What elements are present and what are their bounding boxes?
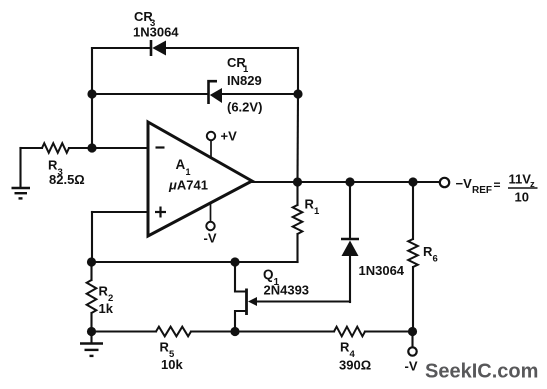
node dot D (output/R1) xyxy=(293,177,302,186)
wire plus input xyxy=(92,211,148,213)
svg-text:REF: REF xyxy=(472,185,492,196)
svg-text:82.5Ω: 82.5Ω xyxy=(49,172,85,187)
svg-text:1: 1 xyxy=(186,167,191,177)
svg-text:390Ω: 390Ω xyxy=(339,358,371,373)
wire left vertical feedback bus xyxy=(91,48,93,148)
resistor R2 zigzag xyxy=(87,280,97,313)
svg-text:SeekIC.com: SeekIC.com xyxy=(425,361,538,383)
wire bottom rail xyxy=(92,330,157,332)
transistor Q1 drain lead xyxy=(235,262,246,292)
wire Q1 gate to diode xyxy=(256,300,350,302)
op-amp minus input sign xyxy=(156,146,165,148)
diode 1N3064 cathode bar xyxy=(341,238,359,241)
node dot G (plus rail/R2) xyxy=(87,257,96,266)
node dot E (output/diode) xyxy=(345,177,354,186)
svg-text:μA741: μA741 xyxy=(168,178,208,193)
svg-text:R: R xyxy=(99,284,109,299)
svg-text:R: R xyxy=(305,197,315,212)
node dot A (feedback/CR1 left) xyxy=(87,89,96,98)
svg-text:1: 1 xyxy=(314,206,320,217)
svg-text:1k: 1k xyxy=(99,301,114,316)
svg-text:-V: -V xyxy=(405,359,418,374)
svg-text:11V: 11V xyxy=(509,172,532,187)
resistor R6 zigzag xyxy=(408,239,418,267)
transistor Q1 channel bar xyxy=(245,289,248,316)
svg-text:2N4393: 2N4393 xyxy=(264,283,310,298)
resistor R1 zigzag xyxy=(293,205,303,234)
svg-text:+V: +V xyxy=(221,129,238,144)
op-amp U1 A1 triangle xyxy=(148,122,252,236)
node dot I (R2 bottom) xyxy=(87,327,96,336)
ground left stem xyxy=(19,148,21,188)
resistor R3 zigzag xyxy=(42,143,69,153)
svg-text:(6.2V): (6.2V) xyxy=(227,100,262,115)
ground bottom stem xyxy=(90,332,92,344)
zener CR1 arrow xyxy=(210,88,222,103)
svg-text:1N3064: 1N3064 xyxy=(359,263,405,278)
svg-text:Q: Q xyxy=(263,267,274,282)
terminal output circle xyxy=(440,178,449,187)
node dot K (R4/R6/-V) xyxy=(408,327,417,336)
diode 1N3064 arrow xyxy=(342,241,359,257)
svg-text:-V: -V xyxy=(204,231,217,246)
resistor R5 zigzag xyxy=(156,327,191,337)
svg-text:R: R xyxy=(48,158,58,173)
svg-text:−V: −V xyxy=(456,176,473,191)
wire top feedback (CR3 branch) xyxy=(92,47,150,49)
transistor Q1 source lead xyxy=(235,311,246,332)
wire diode 1N3064 vertical xyxy=(349,182,351,239)
ground left symbol xyxy=(12,188,31,198)
op-amp -V pin xyxy=(210,203,212,222)
wire R6 vertical xyxy=(412,182,414,239)
resistor R1 vertical wire xyxy=(296,182,298,205)
wire middle horizontal (inverting bias rail) xyxy=(92,261,298,263)
ground bottom symbol xyxy=(80,344,103,356)
svg-text:A: A xyxy=(176,157,186,172)
diode CR3 cathode bar xyxy=(150,40,153,56)
svg-text:R: R xyxy=(160,340,170,355)
svg-text:1N3064: 1N3064 xyxy=(133,25,179,40)
diode CR3 arrow xyxy=(152,41,166,56)
node dot J (Q1 source) xyxy=(230,327,239,336)
svg-text:R: R xyxy=(340,340,350,355)
resistor R4 zigzag xyxy=(334,327,365,337)
terminal -V circle xyxy=(408,347,416,355)
wire R3 input from ground xyxy=(21,147,43,149)
wire CR1 branch xyxy=(92,93,208,95)
svg-text:10k: 10k xyxy=(161,357,183,372)
node dot F (output/R6) xyxy=(408,177,417,186)
svg-text:6: 6 xyxy=(433,254,438,265)
op-amp plus input sign xyxy=(155,207,166,218)
node dot H (Q1 drain) xyxy=(230,257,239,266)
wire right feedback vertical xyxy=(297,48,299,94)
svg-text:10: 10 xyxy=(515,190,529,205)
transistor Q1 gate arrow xyxy=(248,297,257,306)
svg-text:R: R xyxy=(423,244,433,259)
zener CR1 cathode bar xyxy=(209,81,218,104)
wire output xyxy=(252,181,440,183)
resistor R2 vertical wire xyxy=(90,262,92,280)
op-amp +V pin xyxy=(210,141,212,159)
node dot B (R3/minus input) xyxy=(87,143,96,152)
svg-text:IN829: IN829 xyxy=(227,73,262,88)
svg-text:=: = xyxy=(494,178,501,192)
node dot C (CR1 right) xyxy=(293,89,302,98)
wire -V stub xyxy=(411,332,413,348)
